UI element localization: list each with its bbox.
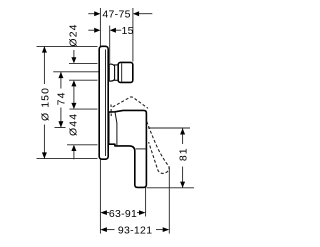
ext line 81 bottom [147, 187, 194, 189]
ext line plate bottom [37, 158, 98, 160]
dim line 63-91 right seg [137, 212, 139, 214]
arrow 81 bottom [180, 182, 185, 188]
svg-text:63-91: 63-91 [109, 208, 137, 220]
arrow D150 bottom [42, 152, 47, 158]
dim line D44 stem below [73, 151, 75, 160]
dim line 93-121 right tail [156, 229, 163, 231]
dashed lever back edge [110, 105, 112, 119]
ext line hub bottom [67, 144, 98, 146]
ext line grip bar bottom [145, 187, 147, 217]
arrow D24 top [71, 57, 76, 63]
arrow 47-75 right [133, 11, 139, 16]
arrow 93-121 left [100, 227, 107, 232]
ext line plate top [37, 45, 98, 47]
ext line hub top [70, 108, 98, 110]
dim line 63-91 left seg [107, 212, 109, 214]
ext line knob bottom [69, 79, 98, 81]
knob base [109, 64, 114, 81]
ext line handle axis [55, 127, 66, 129]
extension line knob base (15 right) [109, 26, 111, 64]
plate face inner line [105, 50, 107, 157]
arrow 63-91 right [139, 210, 146, 215]
arrow D44 top [71, 103, 76, 109]
handle hub and grip bar [109, 110, 147, 187]
arrow 15 right [110, 28, 116, 33]
arrow 47-75 left [94, 11, 100, 16]
hub left facet line [115, 112, 117, 146]
dashed lever grip outline [147, 122, 169, 174]
wall extension line top [99, 8, 101, 46]
arrow D150 top [42, 46, 47, 52]
knob cap [118, 62, 133, 82]
dim line D150 lower [43, 125, 45, 159]
dim line 74 upper [60, 72, 62, 89]
dashed lever base bump [113, 97, 148, 108]
svg-text:93-121: 93-121 [118, 225, 153, 237]
wall extension line bottom [99, 160, 101, 234]
escutcheon plate [99, 46, 108, 159]
knob ring [115, 65, 119, 80]
svg-text:15: 15 [121, 25, 133, 37]
dim line 15 right tail [116, 29, 122, 31]
ext line lever tip bottom [168, 167, 170, 234]
dim line 47-75 left tail [88, 13, 94, 15]
arrow 93-121 right [163, 227, 170, 232]
svg-text:Ø 150: Ø 150 [39, 87, 51, 121]
dim line 81 lower [182, 167, 184, 188]
ext line 81 top [148, 127, 190, 129]
svg-text:Ø24: Ø24 [68, 23, 80, 46]
arrow D44 bottom [71, 145, 76, 151]
ext line knob top [69, 62, 98, 64]
dim line D150 upper [43, 46, 45, 84]
dim line 74 lower [60, 108, 62, 128]
svg-text:74: 74 [56, 91, 68, 105]
arrow 81 top [180, 128, 185, 134]
dim line 81 upper [182, 128, 184, 144]
dim line 93-121 left tail [107, 229, 115, 231]
svg-text:47-75: 47-75 [102, 8, 130, 20]
arrow 63-91 left [100, 210, 107, 215]
arrow 15 left [94, 28, 100, 33]
ext line knob axis [53, 71, 99, 73]
knob cap inner line [121, 63, 123, 81]
svg-text:Ø44: Ø44 [67, 113, 79, 136]
arrow 74 top [58, 72, 63, 78]
dim line 15 left tail [88, 29, 94, 31]
dim line D24 stem above [73, 50, 75, 58]
dim line D24-D44 stem middle [73, 86, 75, 103]
arrow 74 bottom [58, 121, 63, 127]
extension line knob cap front [132, 8, 134, 62]
dim line 47-75 right tail [139, 13, 152, 15]
svg-text:81: 81 [178, 147, 190, 161]
hub step line [136, 148, 147, 150]
arrow D24 bottom [71, 80, 76, 86]
